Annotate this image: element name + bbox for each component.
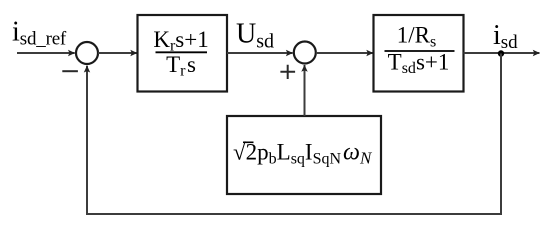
wire S1 to block G1 — [98, 52, 137, 54]
block G1 (Kr s+1)/(Tr s) — [138, 15, 228, 92]
block G3 feedforward — [227, 116, 381, 194]
G3 radical overbar — [243, 141, 254, 143]
wire G3 up into S2 — [304, 65, 306, 116]
node on output wire — [498, 50, 504, 56]
G2 fraction bar — [385, 50, 455, 52]
wire S2 to block G2 — [316, 52, 373, 54]
wire node down — [500, 54, 502, 215]
wire G2 to output — [464, 52, 540, 54]
summing junction S2 — [294, 42, 316, 64]
summing junction S1 — [76, 42, 98, 64]
block G2 (1/Rs)/(Tsd s+1) — [374, 15, 464, 92]
feedback wire bottom — [86, 213, 502, 215]
wire G1 to summing junction S2 — [227, 52, 293, 54]
feedback wire up into S1 — [86, 66, 88, 214]
wire input to summing junction S1 — [17, 52, 75, 54]
plus sign at S2 — [280, 65, 295, 79]
G1 fraction bar — [156, 51, 208, 53]
G3 text sqrt(2) pb Lsq IsqN omegaN — [233, 140, 373, 168]
svg-text:Tsds+1: Tsds+1 — [388, 50, 450, 78]
svg-text:Krs+1: Krs+1 — [153, 27, 208, 55]
minus sign at S1 — [62, 70, 78, 72]
